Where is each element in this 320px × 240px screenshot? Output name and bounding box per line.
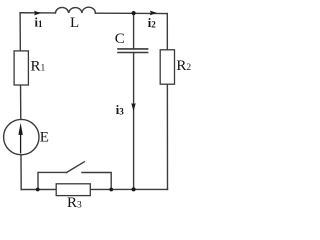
source E xyxy=(4,119,39,154)
svg-text:L: L xyxy=(70,15,79,31)
node bottom-left switch junction xyxy=(36,188,40,192)
svg-text:E: E xyxy=(40,130,49,146)
node bottom switch-right junction xyxy=(109,188,113,192)
wire top rail (left corner to inductor) xyxy=(20,12,55,14)
svg-text:C: C xyxy=(115,31,125,47)
wire left rail xyxy=(20,13,21,190)
svg-text:R3: R3 xyxy=(67,195,82,210)
svg-text:i1: i1 xyxy=(35,16,43,30)
wire capacitor bottom lead xyxy=(133,53,135,190)
switch S right contact and riser xyxy=(82,173,111,190)
svg-text:i3: i3 xyxy=(116,103,124,117)
arrow i1 xyxy=(34,11,41,16)
svg-text:R1: R1 xyxy=(31,58,46,74)
resistor R2 xyxy=(160,50,174,84)
arrow i2 xyxy=(150,11,157,16)
node bottom capacitor junction xyxy=(132,187,136,191)
svg-text:R2: R2 xyxy=(176,58,191,74)
wire capacitor top lead xyxy=(133,13,135,49)
resistor R3 xyxy=(56,184,90,196)
svg-text:i2: i2 xyxy=(148,16,156,30)
inductor L xyxy=(55,7,95,13)
wire bottom rail xyxy=(21,188,167,190)
wire top rail (inductor to top-right corner) xyxy=(95,12,167,14)
resistor R1 xyxy=(14,51,28,85)
wire right rail xyxy=(166,14,168,190)
node top capacitor junction xyxy=(132,11,136,15)
switch S left riser and left contact xyxy=(38,172,67,189)
switch S blade xyxy=(67,162,85,173)
capacitor C xyxy=(117,49,148,53)
arrow i3 xyxy=(131,103,135,111)
